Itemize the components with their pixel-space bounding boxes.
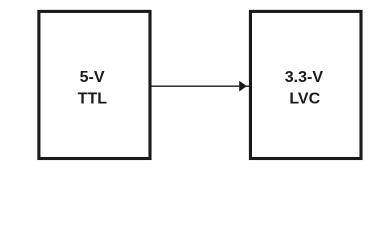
svg-text:3.3-V: 3.3-V (285, 69, 324, 86)
block 5-V TTL (39, 11, 150, 158)
svg-text:LVC: LVC (289, 90, 320, 107)
wire arrow (152, 81, 250, 92)
svg-text:5-V: 5-V (80, 69, 105, 86)
block 3.3-V LVC (250, 11, 361, 158)
svg-text:TTL: TTL (78, 91, 108, 108)
